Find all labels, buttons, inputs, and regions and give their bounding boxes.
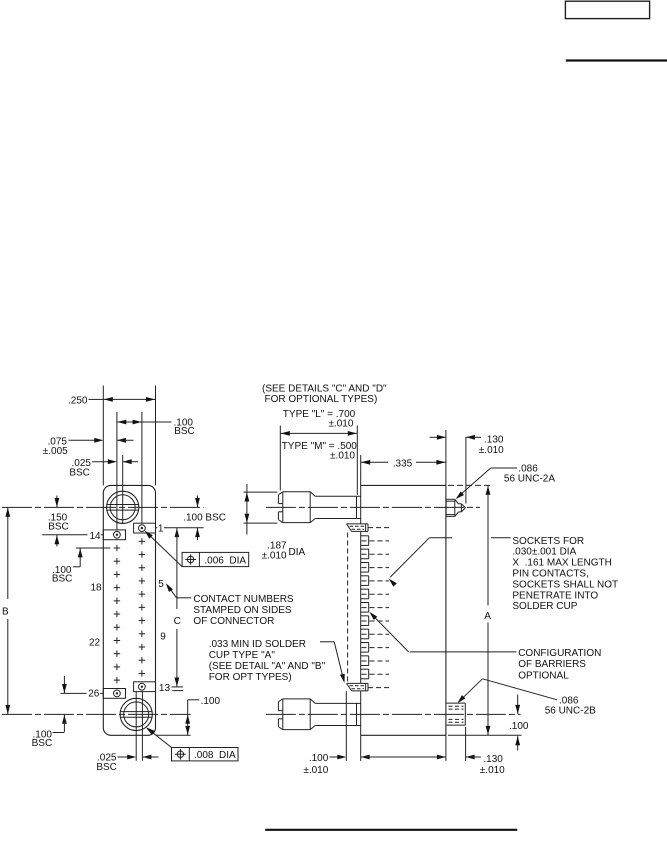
svg-text:.008 DIA: .008 DIA — [194, 750, 236, 761]
leader: barrier configuration note — [369, 612, 516, 652]
leader: .086 56 UNC-2A thread callout — [456, 468, 517, 499]
dimension .025 BSC (column stagger, top) — [69, 458, 138, 479]
leader from .008 frame to bottom jackscrew — [146, 727, 172, 747]
svg-text:BSC: BSC — [32, 738, 53, 749]
centerline top jackscrew (side view) — [266, 506, 480, 508]
svg-text:±.010: ±.010 — [480, 765, 505, 776]
svg-text:(SEE DETAIL "A" AND "B": (SEE DETAIL "A" AND "B" — [209, 661, 326, 672]
extension line flange (bottom) — [445, 735, 447, 761]
svg-text:C: C — [174, 616, 181, 627]
label contact 5 — [158, 579, 164, 590]
leader: sockets note — [389, 538, 511, 587]
svg-text:.100: .100 — [201, 696, 221, 707]
svg-text:DIA: DIA — [289, 547, 306, 558]
svg-text:.250: .250 — [68, 396, 88, 407]
label .130 +/-.010 (hole depth) — [480, 754, 505, 776]
dimension .100 BSC (row pitch, left) — [52, 548, 83, 584]
extension line left contact column (top) — [116, 412, 118, 530]
svg-text:.100 BSC: .100 BSC — [183, 513, 226, 524]
label contact 13 — [159, 683, 171, 694]
extension line right contact column (top) — [141, 412, 143, 523]
extension line right contact column (bottom) — [141, 692, 143, 761]
solder cup contact 13 (side view) — [347, 683, 369, 691]
svg-text:±.005: ±.005 — [43, 446, 68, 457]
centerline bottom jackscrew (side view) — [266, 713, 521, 715]
connector body outline (front view) — [103, 485, 155, 735]
header rule (top right) — [566, 59, 667, 61]
hidden line far solder cup column — [347, 533, 349, 684]
barrier teeth between solder cups (side view) — [361, 536, 369, 679]
top jackscrew (side view) — [278, 492, 360, 523]
note: sockets for pin contacts — [512, 536, 618, 612]
footer rule (bottom center) — [265, 829, 517, 831]
svg-text:56 UNC-2A: 56 UNC-2A — [504, 473, 555, 484]
top jackscrew head (front view) — [107, 491, 139, 523]
hidden centerlines of far column contacts — [362, 528, 392, 688]
tail line for .130 left side — [430, 756, 443, 758]
svg-text:SOCKETS SHALL NOT: SOCKETS SHALL NOT — [512, 579, 618, 590]
dimension .100 BSC (column spacing, top) — [117, 418, 195, 437]
svg-text:BSC: BSC — [174, 426, 195, 437]
extension line hole depth (bottom) — [465, 727, 467, 761]
svg-text:±.010: ±.010 — [330, 451, 355, 462]
svg-text:.100: .100 — [309, 753, 329, 764]
dimension .025 BSC (column stagger, bottom) — [96, 753, 158, 774]
note: configuration of barriers optional — [518, 648, 601, 681]
svg-text:B: B — [2, 606, 9, 617]
dimension A (body height) — [484, 485, 491, 735]
dimension C (contact 1 to 13 span) — [172, 528, 183, 691]
solder cup contact 1 (side view) — [347, 524, 369, 532]
svg-text:1: 1 — [158, 523, 164, 534]
svg-text:PENETRATE INTO: PENETRATE INTO — [512, 590, 598, 601]
note: .033 min ID solder cup — [209, 639, 345, 683]
svg-text:PIN CONTACTS,: PIN CONTACTS, — [512, 569, 588, 580]
svg-text:56 UNC-2B: 56 UNC-2B — [545, 705, 596, 716]
dimension .075 +/-.005 (edge to column) — [43, 437, 134, 458]
svg-text:OF BARRIERS: OF BARRIERS — [518, 659, 586, 670]
svg-text:FOR OPT TYPES): FOR OPT TYPES) — [209, 672, 292, 683]
label contact 26 — [88, 689, 100, 700]
threaded pin 56 UNC-2A (top, protruding) — [446, 499, 465, 516]
label TYPE L length — [283, 409, 356, 430]
svg-text:OF CONNECTOR: OF CONNECTOR — [193, 616, 274, 627]
extension lines knob diameter — [244, 492, 278, 523]
svg-text:±.010: ±.010 — [479, 445, 504, 456]
label contact 18 — [91, 583, 103, 594]
leader: .086 56 UNC-2B thread callout — [457, 679, 557, 703]
horizontal centerline through top jackscrew — [2, 506, 204, 508]
svg-text:.130: .130 — [483, 754, 503, 765]
svg-text:.335: .335 — [393, 458, 413, 469]
contact 13 row line — [172, 686, 184, 688]
contact 13 (circled, boxed) — [134, 682, 156, 692]
dimension .187 +/-.010 DIA (knob diameter) — [245, 484, 306, 562]
svg-text:.100: .100 — [509, 721, 529, 732]
feature control frame .008 DIA (position) — [172, 748, 239, 762]
svg-text:X .161 MAX LENGTH: X .161 MAX LENGTH — [512, 558, 611, 569]
svg-text:.130: .130 — [484, 434, 504, 445]
svg-text:BSC: BSC — [96, 762, 117, 773]
extension line right body edge (top) — [155, 386, 157, 486]
svg-text:9: 9 — [160, 632, 166, 643]
leader from .006 frame to contact 1 — [145, 531, 183, 567]
horizontal centerline through bottom jackscrew — [2, 713, 191, 715]
svg-text:A: A — [484, 611, 491, 622]
dimension line jackscrew length (TYPE L/M) — [280, 426, 357, 496]
svg-text:BSC: BSC — [48, 522, 69, 533]
note: contact numbers stamped on sides of connector — [166, 583, 294, 627]
svg-text:CUP TYPE "A": CUP TYPE "A" — [209, 650, 276, 661]
contact 26 row line — [61, 692, 104, 694]
dimension .100 BSC (contact 26 to centerline) — [32, 676, 67, 749]
svg-text:22: 22 — [89, 638, 101, 649]
svg-text:.033 MIN ID SOLDER: .033 MIN ID SOLDER — [209, 639, 306, 650]
connector body (side view) — [361, 485, 446, 735]
svg-text:CONFIGURATION: CONFIGURATION — [518, 648, 601, 659]
svg-text:SOCKETS FOR: SOCKETS FOR — [512, 536, 584, 547]
svg-text:13: 13 — [159, 683, 171, 694]
note: see details C and D — [262, 383, 387, 405]
bottom jackscrew (side view) — [278, 699, 360, 730]
bottom jackscrew head (front view) — [120, 698, 152, 730]
extension line body face (bottom) — [360, 735, 362, 761]
extension line body top to A — [448, 484, 491, 486]
svg-text:STAMPED ON SIDES: STAMPED ON SIDES — [193, 605, 291, 616]
threaded hole 56 UNC-2B (bottom) — [446, 703, 465, 725]
contact 1 row line and label — [156, 523, 204, 534]
label contact 9 — [160, 632, 166, 643]
svg-text:±.010: ±.010 — [328, 419, 353, 430]
label contact 22 — [89, 638, 101, 649]
dimension .100 +/-.010 (cup protrusion) — [303, 753, 481, 776]
contact 14 row line and label — [42, 531, 103, 542]
svg-text:18: 18 — [91, 583, 103, 594]
dimension .250 (body width) — [68, 396, 155, 407]
contact column left, pins 15-25 (+ marks) — [114, 545, 120, 684]
contact 26 (circled, boxed) — [103, 689, 125, 699]
dimension .100 (centerline to body bottom, front view) — [156, 696, 221, 735]
dimension .130 +/-.010 (flange to pin tip) — [430, 434, 505, 503]
svg-text:14: 14 — [90, 531, 102, 542]
svg-text:(SEE DETAILS "C" AND "D": (SEE DETAILS "C" AND "D" — [262, 383, 387, 394]
svg-text:FOR OPTIONAL TYPES): FOR OPTIONAL TYPES) — [265, 394, 378, 405]
extension line solder cup face (bottom) — [345, 691, 347, 761]
dimension .335 (body face to flange) — [361, 430, 446, 485]
dimension .100 (centerline to body bottom, side view) — [509, 695, 529, 751]
extension line body bottom (right) — [448, 734, 522, 736]
contact 1 (circled, boxed) — [134, 523, 156, 533]
label .086 56 UNC-2B — [545, 696, 596, 717]
svg-text:5: 5 — [158, 579, 164, 590]
contact column right, pins 2-12 (+ marks) — [139, 538, 145, 677]
contact 14 (circled, boxed) — [103, 530, 125, 540]
title block box (top right) — [565, 1, 649, 18]
svg-text:.006 DIA: .006 DIA — [204, 555, 246, 566]
dimension B (jackscrew span) — [2, 507, 10, 714]
dimension .100 BSC (centerline to contact 1) — [183, 496, 226, 541]
svg-text:±.010: ±.010 — [303, 765, 328, 776]
svg-text:SOLDER CUP: SOLDER CUP — [512, 601, 577, 612]
label .086 56 UNC-2A — [504, 463, 555, 484]
contact 15 row line — [76, 547, 110, 549]
svg-text:OPTIONAL: OPTIONAL — [518, 670, 569, 681]
svg-text:BSC: BSC — [52, 573, 73, 584]
label TYPE M length — [282, 441, 358, 461]
centerline top jackscrew (vertical) — [122, 455, 124, 523]
svg-text:CONTACT NUMBERS: CONTACT NUMBERS — [193, 594, 294, 605]
svg-text:.030±.001 DIA: .030±.001 DIA — [512, 547, 576, 558]
dimension .150 BSC (centerline to contact 14) — [48, 496, 69, 547]
feature control frame .006 DIA (position) — [182, 552, 249, 566]
svg-text:±.010: ±.010 — [262, 551, 287, 562]
svg-text:BSC: BSC — [69, 468, 90, 479]
svg-text:26: 26 — [88, 689, 100, 700]
extension line left body edge (top) — [102, 386, 104, 486]
centerline bottom jackscrew (vertical) — [135, 692, 137, 761]
